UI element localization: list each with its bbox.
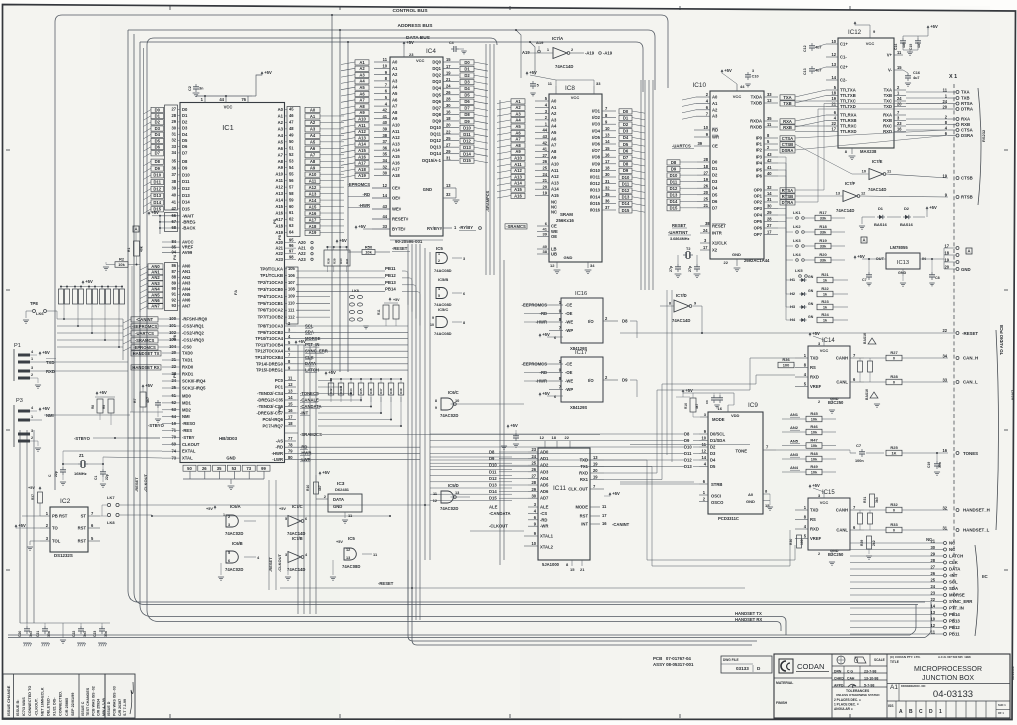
svg-text:D8: D8	[684, 432, 690, 437]
svg-text:27: 27	[767, 223, 772, 228]
svg-text:IC11: IC11	[553, 485, 566, 492]
svg-text:D6: D6	[464, 99, 470, 104]
svg-text:21: 21	[703, 203, 708, 208]
svg-text:32: 32	[171, 138, 176, 143]
svg-text:22: 22	[831, 121, 836, 126]
svg-text:D6: D6	[712, 199, 718, 204]
svg-text:R21: R21	[821, 272, 829, 277]
svg-text:A22: A22	[275, 251, 283, 256]
svg-text:HANDSET RX: HANDSET RX	[132, 365, 159, 370]
svg-text:D0: D0	[623, 109, 629, 114]
svg-text:LK7: LK7	[107, 495, 115, 500]
svg-text:AN7: AN7	[182, 303, 191, 308]
svg-text:NC: NC	[949, 547, 955, 552]
svg-text:SCK0/-IRQ4: SCK0/-IRQ4	[182, 379, 206, 384]
svg-text:33k: 33k	[820, 258, 827, 263]
svg-text:14: 14	[288, 395, 293, 400]
svg-text:TP3/T1OCB0: TP3/T1OCB0	[258, 287, 284, 292]
svg-text:42: 42	[171, 206, 176, 211]
svg-text:D3: D3	[155, 126, 161, 131]
svg-text:SCALE: SCALE	[874, 658, 885, 662]
svg-text:16: 16	[288, 408, 293, 413]
svg-text:41: 41	[382, 114, 387, 119]
svg-text:CLKOUT: CLKOUT	[182, 442, 200, 447]
svg-text:D12: D12	[489, 476, 497, 481]
svg-text:ISSUE C: ISSUE C	[81, 701, 85, 716]
svg-text:R37: R37	[31, 494, 35, 500]
svg-text:19: 19	[703, 177, 708, 182]
svg-text:76: 76	[241, 97, 246, 102]
svg-text:A13: A13	[392, 141, 400, 146]
svg-text:A0: A0	[310, 107, 316, 112]
svg-text:32: 32	[382, 164, 387, 169]
svg-text:HANDSET_H: HANDSET_H	[963, 508, 990, 513]
svg-text:P4: P4	[172, 254, 177, 260]
svg-text:91: 91	[171, 292, 176, 297]
svg-text:10: 10	[862, 169, 866, 174]
svg-text:D0/SCL: D0/SCL	[710, 432, 725, 437]
svg-text:AN3: AN3	[182, 281, 191, 286]
svg-text:33k: 33k	[820, 230, 827, 235]
svg-text:A7: A7	[551, 143, 557, 148]
svg-text:A12: A12	[275, 185, 283, 190]
svg-text:74AC14D: 74AC14D	[672, 318, 690, 323]
svg-text:AN5: AN5	[182, 292, 191, 297]
svg-text:10: 10	[531, 541, 536, 546]
svg-text:A: A	[899, 709, 903, 715]
svg-text:97: 97	[289, 249, 294, 254]
svg-text:11: 11	[931, 629, 936, 634]
svg-text:106: 106	[288, 273, 296, 278]
svg-text:10k: 10k	[118, 262, 125, 267]
svg-text:10k: 10k	[811, 443, 818, 448]
svg-text:5: 5	[438, 294, 440, 298]
svg-text:100n: 100n	[855, 459, 864, 463]
svg-text:TXD: TXD	[810, 356, 818, 361]
svg-text:1: 1	[31, 415, 33, 419]
svg-text:C/R 26387: C/R 26387	[118, 699, 122, 716]
svg-text:AV99: AV99	[182, 250, 193, 255]
svg-text:D2: D2	[712, 173, 718, 178]
svg-text:A16: A16	[275, 211, 283, 216]
svg-text:D2: D2	[904, 206, 910, 211]
svg-text:-EPROMCS: -EPROMCS	[347, 182, 370, 187]
svg-text:OUT: OUT	[876, 256, 885, 261]
svg-text:A7: A7	[310, 153, 316, 158]
svg-text:23: 23	[409, 52, 414, 57]
svg-text:D1/SDA: D1/SDA	[710, 438, 725, 443]
svg-text:6: 6	[228, 559, 230, 563]
svg-text:-HWR: -HWR	[359, 203, 370, 208]
svg-text:TONE: TONE	[735, 449, 747, 454]
svg-text:HANDSET RX: HANDSET RX	[735, 617, 762, 622]
svg-text:43: 43	[542, 134, 547, 139]
svg-text:A19: A19	[309, 230, 317, 235]
svg-text:CLK_OUT: CLK_OUT	[568, 487, 588, 492]
svg-text:74AC02D: 74AC02D	[440, 413, 458, 418]
svg-text:25: 25	[703, 197, 708, 202]
svg-text:D5: D5	[464, 93, 470, 98]
svg-text:D9: D9	[622, 378, 628, 383]
svg-text:109: 109	[288, 294, 296, 299]
svg-text:HB/3D03: HB/3D03	[219, 436, 238, 441]
svg-text:61: 61	[171, 393, 176, 398]
svg-text:-RESET: -RESET	[378, 581, 394, 586]
svg-text:DWG FILE: DWG FILE	[723, 658, 739, 662]
svg-text:RXD: RXD	[579, 471, 588, 476]
svg-text:TTLTXD: TTLTXD	[840, 104, 856, 109]
svg-text:2: 2	[438, 259, 440, 263]
svg-text:12: 12	[831, 52, 836, 57]
svg-text:VCC: VCC	[416, 58, 425, 63]
svg-text:LATCH: LATCH	[949, 554, 963, 559]
svg-text:12: 12	[288, 382, 293, 387]
svg-text:-CE: -CE	[565, 362, 572, 367]
svg-text:-SRAMCS: -SRAMCS	[506, 224, 526, 229]
svg-text:A6: A6	[515, 130, 521, 135]
svg-text:NC: NC	[551, 209, 557, 214]
svg-text:D3: D3	[712, 179, 718, 184]
svg-text:FA: FA	[233, 290, 238, 295]
svg-text:AN2: AN2	[790, 425, 799, 430]
svg-text:+5V: +5V	[206, 507, 213, 511]
svg-text:D14: D14	[182, 200, 190, 205]
svg-text:IN: IN	[922, 256, 926, 261]
svg-text:+5V: +5V	[529, 70, 537, 75]
svg-text:2: 2	[31, 373, 33, 377]
svg-text:RXDA: RXDA	[750, 119, 762, 124]
svg-text:R33: R33	[890, 522, 898, 527]
svg-text:A4: A4	[359, 79, 365, 84]
svg-text:A8: A8	[515, 143, 521, 148]
svg-text:WE#: WE#	[392, 207, 402, 212]
svg-text:D0: D0	[182, 107, 188, 112]
svg-text:45: 45	[289, 107, 294, 112]
svg-text:A9: A9	[359, 110, 365, 115]
svg-text:Z1: Z1	[79, 453, 85, 458]
svg-text:-STBYO: -STBYO	[74, 436, 91, 441]
svg-text:TP5/T1OCB1: TP5/T1OCB1	[258, 301, 284, 306]
svg-text:DATA: DATA	[333, 497, 344, 502]
svg-text:67: 67	[171, 219, 176, 224]
svg-text:RTSB: RTSB	[961, 195, 973, 200]
svg-text:IC7/B: IC7/B	[292, 536, 303, 541]
svg-text:53: 53	[232, 466, 237, 471]
svg-text:A2: A2	[310, 120, 316, 125]
svg-text:-CS: -CS	[540, 511, 547, 516]
svg-text:98: 98	[289, 254, 294, 259]
svg-text:23: 23	[531, 447, 536, 452]
svg-text:TXDB: TXDB	[751, 101, 762, 106]
svg-text:H4: H4	[790, 317, 796, 322]
svg-text:V-: V-	[888, 68, 893, 73]
svg-text:A18: A18	[392, 173, 400, 178]
svg-text:D2: D2	[155, 120, 161, 125]
svg-text:29: 29	[171, 119, 176, 124]
svg-text:GND: GND	[423, 187, 432, 192]
svg-text:35: 35	[767, 116, 772, 121]
svg-text:ADDRESS BUS: ADDRESS BUS	[398, 23, 434, 29]
svg-text:VCC: VCC	[866, 41, 875, 46]
svg-text:INT: INT	[581, 522, 588, 527]
svg-text:70: 70	[171, 435, 176, 440]
svg-text:A4: A4	[551, 124, 557, 129]
svg-text:24: 24	[542, 172, 547, 177]
svg-text:66: 66	[171, 213, 176, 218]
svg-text:03133: 03133	[736, 666, 749, 671]
svg-text:19: 19	[542, 191, 547, 196]
svg-text:DRAWING/DOC. NO: DRAWING/DOC. NO	[901, 684, 925, 688]
svg-text:+5V: +5V	[322, 470, 330, 475]
svg-text:A: A	[134, 227, 137, 232]
svg-text:A12: A12	[514, 168, 522, 173]
svg-text:26: 26	[930, 571, 935, 576]
svg-text:A11: A11	[551, 168, 559, 173]
svg-text:R48: R48	[810, 451, 818, 456]
svg-text:B2C250: B2C250	[828, 400, 844, 405]
svg-text:PCB 07-01767-04: PCB 07-01767-04	[653, 656, 691, 661]
svg-text:34: 34	[382, 158, 387, 163]
svg-text:28: 28	[171, 113, 176, 118]
svg-text:44: 44	[542, 128, 547, 133]
svg-text:2: 2	[818, 400, 820, 404]
svg-text:C2+: C2+	[840, 65, 848, 70]
svg-text:WR: WR	[712, 135, 719, 140]
svg-text:17: 17	[767, 230, 772, 235]
svg-text:R47: R47	[379, 388, 383, 394]
svg-text:+5V: +5V	[42, 350, 50, 355]
svg-text:43: 43	[767, 152, 772, 157]
svg-text:B2C250: B2C250	[828, 552, 844, 557]
svg-text:59: 59	[289, 197, 294, 202]
svg-text:D3: D3	[464, 79, 470, 84]
svg-text:22: 22	[565, 435, 570, 440]
svg-text:LK3: LK3	[793, 238, 801, 243]
svg-text:R8: R8	[91, 405, 95, 409]
svg-text:TP8/T1OCA3: TP8/T1OCA3	[258, 324, 284, 329]
svg-text:TXD: TXD	[884, 104, 892, 109]
svg-text:D5: D5	[712, 192, 718, 197]
svg-text:15: 15	[897, 65, 902, 70]
svg-text:-RESET: -RESET	[962, 331, 978, 336]
svg-text:-TEND2/-CS4: -TEND2/-CS4	[257, 391, 283, 396]
svg-text:24: 24	[897, 96, 902, 101]
svg-text:A19: A19	[522, 50, 530, 55]
svg-text:TXD1: TXD1	[182, 358, 193, 363]
svg-text:D15: D15	[489, 496, 497, 501]
svg-text:R27: R27	[890, 350, 898, 355]
svg-text:-CS0: -CS0	[182, 345, 192, 350]
svg-text:RS: RS	[810, 517, 816, 522]
svg-text:34: 34	[590, 263, 595, 268]
svg-text:33: 33	[767, 92, 772, 97]
svg-text:A23: A23	[275, 257, 283, 262]
svg-text:GND: GND	[333, 504, 342, 509]
svg-text:A8: A8	[359, 104, 365, 109]
svg-text:+5V: +5V	[857, 254, 865, 259]
svg-text:TP14/-DREG0: TP14/-DREG0	[256, 361, 284, 366]
svg-text:52: 52	[289, 152, 294, 157]
svg-text:10k: 10k	[811, 417, 818, 422]
svg-text:37: 37	[171, 172, 176, 177]
svg-text:LK1: LK1	[793, 210, 801, 215]
svg-text:3: 3	[463, 257, 465, 261]
svg-text:CANH: CANH	[836, 356, 848, 361]
svg-text:44: 44	[382, 214, 387, 219]
svg-text:18: 18	[446, 116, 451, 121]
svg-text:+5V: +5V	[151, 210, 159, 215]
svg-text:IP1: IP1	[756, 142, 763, 147]
svg-text:-EEPROMCS: -EEPROMCS	[132, 324, 158, 329]
svg-text:-SRAMPCS: -SRAMPCS	[485, 190, 490, 212]
svg-text:A.C.N. 007 590 605 1998: A.C.N. 007 590 605 1998	[938, 655, 971, 659]
svg-text:IC5/D: IC5/D	[448, 483, 459, 488]
svg-text:TITLE: TITLE	[890, 660, 899, 664]
svg-text:OF 1: OF 1	[998, 711, 1004, 715]
svg-text:11: 11	[943, 87, 948, 92]
svg-text:-CE: -CE	[565, 303, 572, 308]
svg-text:15: 15	[570, 567, 575, 572]
svg-text:A3: A3	[551, 117, 557, 122]
svg-text:D7: D7	[464, 106, 470, 111]
svg-text:C16: C16	[913, 71, 920, 75]
svg-text:AN1: AN1	[790, 412, 799, 417]
svg-text:4u7: 4u7	[917, 42, 921, 48]
svg-text:11: 11	[288, 376, 293, 381]
svg-text:22: 22	[171, 364, 176, 369]
svg-text:21: 21	[542, 178, 547, 183]
svg-text:R43: R43	[339, 388, 343, 394]
svg-text:3: 3	[31, 366, 33, 370]
svg-text:D13: D13	[684, 464, 692, 469]
svg-text:LK5: LK5	[795, 268, 803, 273]
svg-text:3: 3	[285, 553, 287, 557]
svg-text:A15: A15	[358, 148, 366, 153]
svg-text:31: 31	[446, 155, 451, 160]
svg-text:A17: A17	[392, 167, 400, 172]
svg-text:XTAL2: XTAL2	[540, 545, 554, 550]
svg-text:3: 3	[31, 429, 33, 433]
svg-text:AN1: AN1	[151, 270, 160, 275]
svg-text:D9: D9	[489, 456, 495, 461]
svg-text:21: 21	[831, 102, 836, 107]
svg-text:TTLRXD: TTLRXD	[840, 129, 857, 134]
svg-text:GND: GND	[226, 456, 235, 461]
svg-text:13: 13	[605, 133, 610, 138]
svg-text:13: 13	[831, 62, 836, 67]
svg-text:1: 1	[31, 357, 33, 361]
svg-text:A18: A18	[358, 167, 366, 172]
svg-text:69: 69	[171, 442, 176, 447]
svg-text:26: 26	[542, 159, 547, 164]
svg-text:63: 63	[171, 407, 176, 412]
svg-text:A6: A6	[310, 146, 316, 151]
svg-text:TXA: TXA	[884, 88, 892, 93]
svg-text:-TONECS: -TONECS	[300, 391, 319, 396]
svg-text:D12: D12	[153, 186, 161, 191]
svg-text:R48: R48	[389, 388, 393, 394]
svg-text:TP0/TCLKA: TP0/TCLKA	[260, 266, 283, 271]
svg-text:C21: C21	[36, 631, 40, 637]
svg-text:I/O6: I/O6	[592, 142, 601, 147]
svg-text:BAS16: BAS16	[863, 333, 867, 344]
svg-text:30: 30	[930, 545, 935, 550]
svg-text:74AC14D: 74AC14D	[555, 64, 573, 69]
svg-text:D11: D11	[622, 181, 630, 186]
svg-text:18: 18	[831, 91, 836, 96]
svg-text:AN5: AN5	[151, 292, 160, 297]
svg-text:23: 23	[930, 590, 935, 595]
svg-text:10: 10	[382, 64, 387, 69]
svg-text:74AC14D: 74AC14D	[287, 567, 305, 572]
svg-text:3: 3	[228, 523, 230, 527]
svg-text:CANH: CANH	[836, 508, 848, 513]
svg-text:+5V: +5V	[28, 486, 35, 490]
svg-text:SCK1/-IRQ5: SCK1/-IRQ5	[182, 386, 206, 391]
svg-text:A2: A2	[712, 107, 718, 112]
svg-text:28: 28	[531, 480, 536, 485]
svg-text:A13: A13	[309, 191, 317, 196]
svg-text:14: 14	[831, 75, 836, 80]
svg-text:-UARTINT: -UARTINT	[668, 230, 688, 235]
svg-text:DQ0: DQ0	[432, 60, 441, 65]
svg-text:-UARTCS: -UARTCS	[672, 144, 691, 149]
svg-text:R30: R30	[789, 539, 793, 545]
svg-text:54: 54	[289, 165, 294, 170]
svg-text:41: 41	[767, 165, 772, 170]
svg-text:-CLKOUT: -CLKOUT	[277, 553, 282, 572]
svg-text:A5: A5	[310, 140, 316, 145]
svg-text:27: 27	[542, 153, 547, 158]
svg-text:GN: GN	[808, 315, 814, 319]
svg-text:14: 14	[930, 603, 935, 608]
svg-text:VCC: VCC	[571, 95, 580, 100]
svg-text:GND: GND	[564, 255, 573, 260]
svg-text:IP5: IP5	[756, 168, 763, 173]
svg-text:DSRA: DSRA	[961, 133, 973, 138]
svg-text:IC8: IC8	[565, 85, 575, 92]
svg-text:DQ14: DQ14	[430, 151, 442, 156]
svg-text:ISSUE B:: ISSUE B:	[16, 700, 20, 716]
svg-text:A15: A15	[551, 193, 559, 198]
svg-text:1: 1	[939, 709, 942, 715]
svg-text:DQ9: DQ9	[432, 118, 441, 123]
svg-text:-WE: -WE	[565, 379, 573, 384]
svg-text:R45: R45	[359, 388, 363, 394]
svg-text:P1: P1	[14, 343, 21, 349]
svg-text:10: 10	[703, 125, 708, 130]
svg-text:IC7/A: IC7/A	[552, 36, 564, 41]
svg-text:IC7/3 WAS: IC7/3 WAS	[22, 697, 26, 716]
svg-text:MAX238: MAX238	[860, 149, 877, 154]
svg-text:CE#: CE#	[392, 186, 401, 191]
svg-text:25: 25	[542, 166, 547, 171]
svg-text:-A19: -A19	[603, 51, 613, 56]
svg-text:2 PLACES DEC. =: 2 PLACES DEC. =	[834, 698, 861, 702]
svg-text:R16: R16	[684, 403, 688, 409]
svg-text:TP11/T1OCB4: TP11/T1OCB4	[256, 342, 284, 347]
svg-text:RXA: RXA	[961, 117, 970, 122]
svg-text:95: 95	[289, 238, 294, 243]
svg-text:31: 31	[767, 197, 772, 202]
svg-text:A0: A0	[278, 107, 284, 112]
svg-text:D1: D1	[878, 206, 884, 211]
svg-text:101: 101	[169, 323, 177, 328]
svg-text:104: 104	[169, 344, 177, 349]
svg-text:R40: R40	[339, 258, 343, 264]
svg-text:112: 112	[288, 314, 295, 319]
svg-text:A17: A17	[309, 217, 317, 222]
